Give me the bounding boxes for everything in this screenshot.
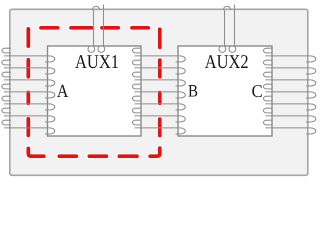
wire: [263, 48, 272, 53]
flux path bottom-right corner: [150, 148, 160, 156]
wire: [266, 91, 311, 93]
wire: [306, 68, 316, 74]
flux path left edge (red dashed): [26, 29, 30, 136]
wire: [4, 67, 50, 69]
halo of flux path bottom-left corner: [28, 148, 43, 156]
wire: [263, 84, 272, 89]
wire: [263, 72, 272, 77]
wire: [4, 115, 50, 117]
wire: [92, 6, 99, 10]
wire: [2, 120, 11, 125]
wire: [266, 103, 311, 105]
wire: [266, 115, 311, 117]
wire: [4, 127, 50, 129]
wire: [176, 68, 186, 74]
wire: [266, 79, 311, 81]
wire: [45, 116, 55, 122]
wire: [45, 104, 55, 110]
wire: [45, 128, 55, 134]
wire: [132, 48, 141, 53]
flux path top edge (red dashed): [41, 26, 148, 30]
wire: [263, 120, 272, 125]
wire: [103, 5, 105, 46]
wire: [4, 91, 50, 93]
wire: [132, 72, 141, 77]
wire: [132, 120, 141, 125]
wire: [229, 46, 236, 53]
transformer core outline: [10, 9, 308, 175]
wire: [234, 5, 236, 46]
wire: [224, 10, 226, 46]
wire: [176, 56, 186, 62]
halo of flux path top edge (red dashed): [41, 25, 148, 31]
winding A (left limb): [2, 48, 55, 134]
flux path bottom edge (red dashed): [59, 154, 137, 158]
flux path bottom-left corner: [28, 148, 43, 156]
core window AUX2: [178, 46, 272, 136]
wire: [135, 91, 181, 93]
wire: [176, 80, 186, 86]
wire: [219, 46, 226, 53]
wire: [266, 67, 311, 69]
wire: [176, 92, 186, 98]
wire: [135, 55, 181, 57]
halo of flux path left edge (red dashed): [25, 29, 31, 136]
wire: [98, 46, 105, 53]
winding C (right limb): [263, 48, 315, 134]
svg-text:AUX1: AUX1: [75, 52, 119, 73]
wire: [135, 127, 181, 129]
wire: [132, 84, 141, 89]
wire: [176, 104, 186, 110]
wire: [2, 84, 11, 89]
flux path right edge (red dashed): [158, 29, 162, 135]
wire: [132, 108, 141, 113]
winding AUX2 (top yoke, right): [219, 5, 236, 53]
wire: [93, 10, 95, 46]
wire: [135, 103, 181, 105]
wire: [132, 96, 141, 101]
winding AUX1 (top yoke, left): [88, 5, 105, 53]
wire: [135, 79, 181, 81]
wire: [223, 6, 230, 10]
winding B (middle limb): [132, 48, 185, 134]
wire: [135, 115, 181, 117]
wire: [263, 96, 272, 101]
wire: [45, 80, 55, 86]
wire: [45, 92, 55, 98]
halo of flux path bottom-right corner: [150, 148, 160, 156]
wire: [45, 68, 55, 74]
wire: [4, 103, 50, 105]
wire: [266, 55, 311, 57]
wire: [176, 128, 186, 134]
core window AUX1: [48, 46, 142, 136]
halo of flux path bottom edge (red dashed): [59, 153, 137, 159]
wire: [266, 127, 311, 129]
wire: [4, 79, 50, 81]
svg-text:A: A: [57, 82, 69, 102]
wire: [306, 80, 316, 86]
svg-text:C: C: [252, 81, 263, 101]
wire: [4, 55, 50, 57]
halo of flux path right edge (red dashed): [157, 29, 163, 135]
wire: [176, 116, 186, 122]
wire: [88, 46, 95, 53]
wire: [2, 96, 11, 101]
wire: [306, 116, 316, 122]
wire: [2, 108, 11, 113]
svg-text:B: B: [188, 80, 198, 100]
wire: [263, 108, 272, 113]
wire: [306, 56, 316, 62]
svg-text:AUX2: AUX2: [205, 52, 249, 73]
wire: [306, 104, 316, 110]
wire: [263, 60, 272, 65]
wire: [306, 128, 316, 134]
wire: [132, 60, 141, 65]
wire: [135, 67, 181, 69]
wire: [45, 56, 55, 62]
wire: [2, 60, 11, 65]
wire: [2, 48, 11, 53]
wire: [2, 72, 11, 77]
wire: [306, 92, 316, 98]
